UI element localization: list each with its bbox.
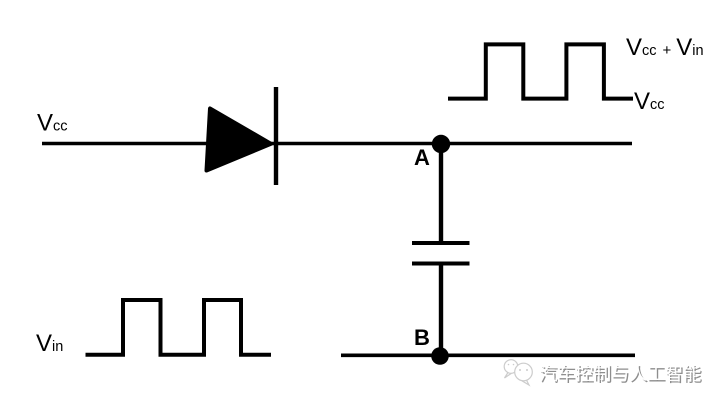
node A junction dot xyxy=(432,135,450,153)
watermark logo chat bubbles xyxy=(504,360,532,385)
svg-text:Vin: Vin xyxy=(36,330,63,357)
diode D1 anode triangle xyxy=(207,109,272,171)
output square waveform xyxy=(448,44,633,98)
svg-text:B: B xyxy=(414,325,430,350)
node B junction dot xyxy=(431,347,449,365)
diode D1 cathode bar xyxy=(274,87,278,185)
capacitor C1 bottom plate xyxy=(412,262,470,266)
capacitor C1 top plate xyxy=(412,241,470,245)
svg-text:Vcc: Vcc xyxy=(634,88,665,115)
wire capacitor to node B xyxy=(439,264,443,357)
wire node A to capacitor xyxy=(439,144,443,246)
Vin square waveform xyxy=(86,300,272,355)
svg-text:Vcc: Vcc xyxy=(37,110,68,137)
svg-text:A: A xyxy=(414,145,430,170)
watermark text xyxy=(539,360,701,386)
wire bottom horizontal line xyxy=(341,353,635,357)
wire main horizontal Vcc line xyxy=(42,142,632,146)
svg-text:Vcc+Vin: Vcc+Vin xyxy=(626,34,704,61)
